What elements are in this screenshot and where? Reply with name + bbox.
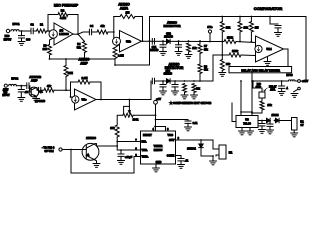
- capacitor C14: [279, 86, 285, 88]
- svg-text:+12V: +12V: [302, 79, 309, 83]
- resistor R20 2.2M: [78, 80, 90, 84]
- junction C11 node: [65, 89, 67, 91]
- svg-text:CR3: CR3: [165, 71, 170, 73]
- junction R24 drop: [251, 112, 253, 114]
- wire pin48 bridge: [155, 126, 166, 128]
- ground under C15: [259, 130, 266, 134]
- svg-text:0.01: 0.01: [193, 122, 198, 125]
- wire det1 cap1 stub: [162, 41, 164, 45]
- svg-text:2.2M: 2.2M: [118, 53, 124, 57]
- wire tie A-B: [221, 42, 223, 56]
- wire R24 down: [252, 110, 262, 113]
- junction wiper tap: [129, 99, 131, 101]
- wire reg gnd stub b: [249, 128, 251, 132]
- svg-text:TRIG.: TRIG.: [142, 155, 149, 159]
- svg-text:330: 330: [26, 38, 31, 41]
- junction tie B: [221, 54, 223, 56]
- resistor R17 100k: [229, 53, 241, 57]
- svg-text:VCC: VCC: [168, 133, 174, 137]
- junction diode mid: [274, 120, 276, 122]
- ground under C17: [185, 127, 192, 131]
- svg-text:.01: .01: [185, 159, 189, 162]
- wire R4 diagonal: [78, 34, 85, 41]
- svg-text:47k: 47k: [204, 69, 209, 72]
- junction bus 2.2M: [114, 64, 116, 66]
- svg-text:2N5138: 2N5138: [86, 136, 96, 140]
- ground under C7: [175, 52, 182, 56]
- wire terminal to base: [62, 149, 86, 151]
- junction rail 10k: [239, 16, 241, 18]
- resistor R1: [37, 24, 47, 33]
- svg-text:U1d: U1d: [266, 47, 272, 51]
- resistor R2 4.7M: [58, 13, 68, 17]
- inductor RFC3: [289, 80, 296, 81]
- svg-text:DETECTOR: DETECTOR: [165, 66, 184, 70]
- wire C18 stub: [120, 150, 122, 154]
- terminal J1 mic input: [6, 29, 9, 32]
- ground under C9: [18, 98, 25, 102]
- junction ant node: [20, 85, 22, 87]
- wire mic node: [19, 30, 31, 32]
- ground under 68k: [219, 73, 226, 77]
- junction THR node: [120, 149, 122, 151]
- wire TRIG riser: [71, 157, 134, 174]
- junction OUT diode: [200, 139, 202, 141]
- svg-text:100k: 100k: [227, 35, 233, 39]
- junction box drop a: [251, 80, 253, 82]
- ground under reg a: [239, 131, 246, 135]
- junction reg top: [251, 111, 253, 113]
- svg-text:47k: 47k: [100, 25, 105, 28]
- wire Q3 collector: [95, 144, 117, 146]
- wire C4-R5: [92, 31, 97, 33]
- junction vcc: [154, 126, 156, 128]
- wire det1 cap2 stub: [178, 41, 180, 45]
- wire det1 main: [143, 40, 213, 42]
- svg-text:78L09: 78L09: [243, 122, 251, 126]
- svg-text:U1c: U1c: [82, 98, 87, 102]
- svg-text:R2: R2: [61, 9, 65, 13]
- wire reg top bridge: [241, 111, 252, 113]
- svg-text:10M: 10M: [68, 71, 73, 75]
- wiper loop R25: [124, 106, 130, 113]
- wire 2.2M to bus: [114, 59, 116, 66]
- wire battery gnd: [293, 130, 295, 133]
- capacitor C6: [160, 45, 166, 47]
- wire R1 to U1a input: [47, 30, 50, 32]
- terminal 9V+: [208, 30, 211, 33]
- wire cap C1 stub: [21, 31, 23, 36]
- wire DIS line: [117, 141, 140, 143]
- junction U1a input node: [47, 30, 49, 32]
- svg-text:10k: 10k: [196, 87, 201, 90]
- junction 9V cap: [155, 119, 157, 121]
- wire out to C4: [78, 32, 89, 34]
- wire 555 gnd stub: [155, 164, 157, 168]
- junction relay gnd: [212, 155, 214, 157]
- junction 1M bot: [251, 41, 253, 43]
- svg-text:U3: U3: [245, 117, 249, 121]
- wire C16 gnd: [269, 126, 271, 130]
- op-amp U1d comparator: [255, 36, 284, 62]
- wire Q1 emitter: [35, 96, 37, 98]
- svg-text:K1: K1: [229, 151, 233, 155]
- wire TRIG line: [134, 156, 141, 158]
- svg-text:47k: 47k: [204, 48, 209, 51]
- wire drop regulator: [251, 73, 253, 116]
- junction det1 b: [178, 40, 180, 42]
- junction U1b input: [113, 31, 115, 33]
- svg-text:9V+: 9V+: [207, 25, 213, 29]
- resistor R26 10k: [115, 125, 119, 137]
- junction box drop cap: [281, 80, 283, 82]
- wire reg left pin: [232, 121, 236, 123]
- ground under C16: [267, 130, 274, 134]
- resistor R7 2.2M: [113, 48, 117, 59]
- svg-text:1N4001: 1N4001: [187, 147, 196, 150]
- svg-text:1N914B: 1N914B: [164, 73, 173, 76]
- ground under C13: [160, 91, 167, 95]
- wire Q1 collector: [36, 88, 38, 91]
- wire 12k top: [221, 17, 223, 22]
- wire 10k bottom: [239, 32, 241, 42]
- svg-text:DELAY: DELAY: [269, 86, 277, 89]
- svg-text:RFC2: RFC2: [11, 76, 18, 80]
- capacitor C19 0.01: [178, 159, 184, 161]
- transistor Q3 2N5138: [82, 136, 99, 160]
- diode CR6: [276, 118, 280, 122]
- IC U2 NE555 timer: [141, 131, 176, 164]
- inductor RFC2: [9, 84, 17, 85]
- svg-text:1N914B: 1N914B: [150, 49, 159, 52]
- svg-text:AMP: AMP: [80, 62, 88, 66]
- svg-text:RFC3: RFC3: [286, 74, 293, 77]
- wire ant node: [16, 85, 26, 87]
- resistor R19 47k: [44, 88, 54, 92]
- wire pot2 wiper: [128, 100, 130, 111]
- junction U1a output: [77, 33, 79, 35]
- svg-text:68k: 68k: [226, 63, 231, 66]
- wire U1a output: [73, 33, 78, 35]
- wire R9 top: [199, 41, 201, 44]
- svg-text:RFC1: RFC1: [12, 22, 20, 26]
- svg-text:10M: 10M: [43, 49, 48, 51]
- op-amp U1a 1/4 LM3900: [49, 23, 73, 45]
- wire relay bottom pin: [216, 155, 219, 156]
- regulator U3 78L09: [236, 116, 258, 128]
- junction det2 e: [199, 80, 201, 82]
- wire C19 gnd: [180, 161, 182, 165]
- wire 9V riser 555: [155, 104, 157, 126]
- resistor R9 47k: [198, 44, 202, 54]
- resistor R22: [192, 84, 196, 93]
- battery B1 9V: [292, 118, 305, 131]
- capacitor C13: [160, 85, 166, 87]
- wire C14 stub: [281, 81, 283, 86]
- capacitor C10: [27, 83, 29, 89]
- wire pin4 stub: [155, 127, 157, 132]
- wire CR7 top: [200, 140, 202, 144]
- svg-text:9V: 9V: [300, 124, 303, 127]
- ground under S1: [291, 94, 298, 98]
- wire U1b input riser: [113, 17, 116, 42]
- svg-text:INPUT: INPUT: [4, 37, 12, 41]
- box DELAY AND RELAY DRIVER: [229, 67, 292, 73]
- resistor R14 10k: [238, 22, 242, 33]
- junction box drop b: [240, 80, 242, 82]
- junction det2 b: [174, 80, 176, 82]
- junction det2 c: [184, 80, 186, 82]
- wire 100k2 to comp-: [241, 54, 256, 57]
- svg-text:10k: 10k: [267, 103, 272, 107]
- resistor R24 10k: [260, 101, 264, 110]
- ground under C6: [160, 52, 167, 56]
- resistor R13 12k: [220, 22, 224, 33]
- junction coll node: [116, 145, 118, 147]
- junction bus 10M: [65, 58, 67, 60]
- potentiometer R23 delay adj: [256, 84, 277, 98]
- wiper arrow R25: [128, 111, 130, 114]
- wire C2-R1: [33, 30, 36, 32]
- wire C14 gnd: [281, 88, 283, 91]
- ground under Q1: [33, 99, 40, 103]
- wire 68k top: [221, 55, 223, 60]
- diode CR5: [267, 118, 271, 122]
- svg-text:1M: 1M: [126, 11, 131, 15]
- resistor R25 pot 100k: [123, 113, 133, 117]
- svg-text:10k: 10k: [192, 47, 197, 50]
- svg-text:10k: 10k: [110, 126, 115, 130]
- svg-text:RESET: RESET: [143, 133, 152, 137]
- junction DIS node: [116, 141, 118, 143]
- capacitor C5: [152, 39, 154, 45]
- wire bypass stub: [270, 17, 278, 25]
- wire comp output: [284, 49, 289, 67]
- ground under C18: [118, 161, 125, 165]
- wire 68k bot: [221, 71, 223, 73]
- resistor R16 68k: [220, 60, 224, 71]
- svg-text:★ COMPONENTS NOT ON PCB: ★ COMPONENTS NOT ON PCB: [170, 101, 212, 105]
- wire U1c fb left: [71, 82, 79, 97]
- svg-text:1N914: 1N914: [271, 114, 279, 117]
- wire reg left riser: [231, 103, 233, 122]
- wire pot2 left: [117, 115, 123, 125]
- svg-text:MIC PREAMP: MIC PREAMP: [54, 3, 79, 7]
- ground under R22: [191, 95, 198, 99]
- wire reg right pin: [258, 120, 266, 122]
- svg-text:· TO PIN 4: · TO PIN 4: [42, 146, 55, 150]
- terminal J2 ant/vib: [4, 84, 7, 87]
- terminal to pin 4: [59, 148, 62, 151]
- ground under relay: [210, 161, 217, 165]
- resistor R6: [120, 15, 135, 19]
- wire pot to R24: [261, 98, 263, 101]
- wire R19 to U1c: [54, 89, 71, 91]
- wire U1c output: [96, 99, 151, 101]
- wire R4 to bus: [84, 53, 86, 60]
- junction U1b output: [142, 40, 144, 42]
- wire C16 stub: [269, 121, 271, 125]
- resistor R3 10M: [48, 45, 52, 56]
- wire C15 stub: [261, 121, 263, 124]
- wire C18 gnd: [120, 156, 122, 160]
- junction rail bypass: [269, 16, 271, 18]
- svg-text:U1b: U1b: [126, 40, 131, 44]
- wire R26 down: [116, 137, 118, 142]
- junction det1 a: [162, 40, 164, 42]
- op-amp U1b: [113, 31, 142, 53]
- wire R5 to U1b node: [108, 31, 114, 33]
- wire R3 to bus: [49, 55, 51, 59]
- svg-text:CONT.: CONT.: [167, 154, 175, 158]
- ground under C14b: [172, 91, 179, 95]
- wire C6 gnd: [162, 47, 164, 51]
- capacitor C8 bypass: [275, 26, 281, 28]
- wire 10M bottom: [65, 77, 67, 91]
- wire C17 feed: [156, 119, 189, 121]
- junction lineA 9V: [209, 41, 211, 43]
- svg-text:100k: 100k: [256, 87, 262, 89]
- ground under C8: [275, 33, 282, 37]
- ground under C14: [278, 92, 285, 96]
- junction 12k bot: [221, 41, 223, 43]
- svg-text:LM3900: LM3900: [59, 32, 69, 36]
- resistor R10 47k: [198, 64, 202, 74]
- resistor R12 100k: [224, 40, 236, 44]
- wire U1a bias stub: [50, 38, 54, 44]
- inductor RFC1: [11, 30, 19, 31]
- wire det2 riser: [212, 55, 214, 81]
- capacitor C12 series: [152, 78, 154, 84]
- wire lineA left: [212, 41, 224, 43]
- junction mic node: [21, 30, 23, 32]
- svg-text:1N914B: 1N914B: [164, 35, 173, 38]
- svg-text:1/4: 1/4: [59, 28, 63, 32]
- wire 12k bottom: [221, 32, 223, 42]
- capacitor C4: [89, 29, 91, 35]
- junction 10k bot: [239, 41, 241, 43]
- ground under comparator: [264, 62, 271, 66]
- wire pin8 stub: [165, 127, 167, 132]
- svg-text:12k: 12k: [226, 25, 231, 29]
- resistor R18 10M: [64, 66, 68, 77]
- wire 10M top: [65, 59, 67, 66]
- svg-text:AMP: AMP: [31, 79, 38, 83]
- wire OUT line: [176, 139, 214, 141]
- wire into U1c input: [71, 90, 74, 97]
- svg-text:OF U1d: OF U1d: [44, 149, 54, 153]
- junction reg out cap: [261, 120, 263, 122]
- wire U1c fb right: [90, 82, 101, 100]
- relay K1: [219, 145, 233, 159]
- wire 100k to comp+: [236, 42, 256, 43]
- wire R22 gnd: [193, 93, 195, 96]
- resistor R21: [183, 84, 187, 93]
- wire Q3 emitter: [95, 160, 97, 164]
- svg-text:+10µF: +10µF: [125, 156, 133, 159]
- capacitor C16: [267, 124, 273, 126]
- svg-text:51k: 51k: [77, 46, 82, 49]
- op-amp U1c: [72, 89, 96, 110]
- junction rail 12k: [221, 16, 223, 18]
- wire C17 stub: [187, 120, 189, 122]
- svg-text:4.7M: 4.7M: [60, 16, 67, 20]
- wire 10k top: [239, 17, 241, 22]
- wire bypass gnd: [277, 28, 279, 33]
- wire lineB: [213, 54, 229, 56]
- ground under C1: [18, 42, 25, 46]
- wire trig from terminal: [70, 150, 72, 174]
- junction det2 a: [162, 80, 164, 82]
- svg-text:INPUT: INPUT: [2, 94, 10, 97]
- wire det2 cap2 stub: [174, 81, 176, 85]
- capacitor C15: [259, 124, 265, 126]
- wire C10 to Q1: [29, 86, 31, 92]
- wire R2 left leg: [48, 15, 58, 32]
- wire C1 to gnd: [21, 38, 23, 42]
- svg-text:OUT: OUT: [169, 138, 175, 142]
- switch S1: [294, 87, 301, 92]
- svg-text:47k: 47k: [47, 85, 52, 88]
- junction rail det1: [149, 40, 151, 42]
- ground under 555: [153, 168, 160, 172]
- wire 1M top: [250, 17, 252, 22]
- svg-text:THR.: THR.: [142, 148, 148, 152]
- capacitor C11: [39, 87, 41, 93]
- wire C13 gnd: [162, 87, 164, 91]
- wire R6 right leg: [135, 17, 143, 42]
- junction det2 d: [193, 80, 195, 82]
- svg-text:DETECTOR: DETECTOR: [164, 24, 182, 28]
- terminal +9V: [154, 100, 158, 104]
- wire R6 left: [114, 16, 120, 18]
- ground under Q3: [93, 164, 100, 168]
- diode CR7 1N4001: [199, 144, 203, 148]
- svg-text:DIS.: DIS.: [142, 139, 147, 143]
- ground under reg b: [247, 131, 254, 135]
- wire THR line: [117, 142, 140, 151]
- svg-text:ADJ.: ADJ.: [270, 89, 276, 92]
- terminal +12V: [298, 80, 301, 83]
- wire relay feed: [213, 140, 219, 149]
- resistor R8 10k: [187, 43, 191, 52]
- wire 9V down to lineA: [209, 33, 211, 41]
- wire supply 12V: [252, 80, 289, 82]
- capacitor C18 10uF: [118, 154, 124, 156]
- capacitor C9 .33: [18, 90, 24, 92]
- wire reg top stub: [240, 81, 242, 116]
- svg-text:NE555: NE555: [154, 148, 163, 152]
- wire comp gnd stub: [267, 57, 269, 61]
- wire det2 riser left: [150, 81, 152, 100]
- wire det2 main: [155, 80, 214, 82]
- wire C15 gnd: [261, 126, 263, 130]
- capacitor C2: [31, 28, 33, 34]
- wire det2 cap1 stub: [162, 81, 164, 85]
- junction det1 d: [199, 40, 201, 42]
- diode CR2: [167, 39, 171, 43]
- junction bus R4: [84, 58, 86, 60]
- wire C7 gnd: [178, 47, 180, 51]
- wire C9 gnd: [20, 92, 22, 98]
- junction det1 c: [188, 40, 190, 42]
- svg-text:R16: R16: [257, 84, 262, 86]
- junction U1c fb: [70, 96, 72, 98]
- svg-text:10k: 10k: [243, 25, 248, 29]
- wire rail right drop: [300, 17, 306, 82]
- junction U1c out: [100, 99, 102, 101]
- ground under B1: [291, 133, 298, 137]
